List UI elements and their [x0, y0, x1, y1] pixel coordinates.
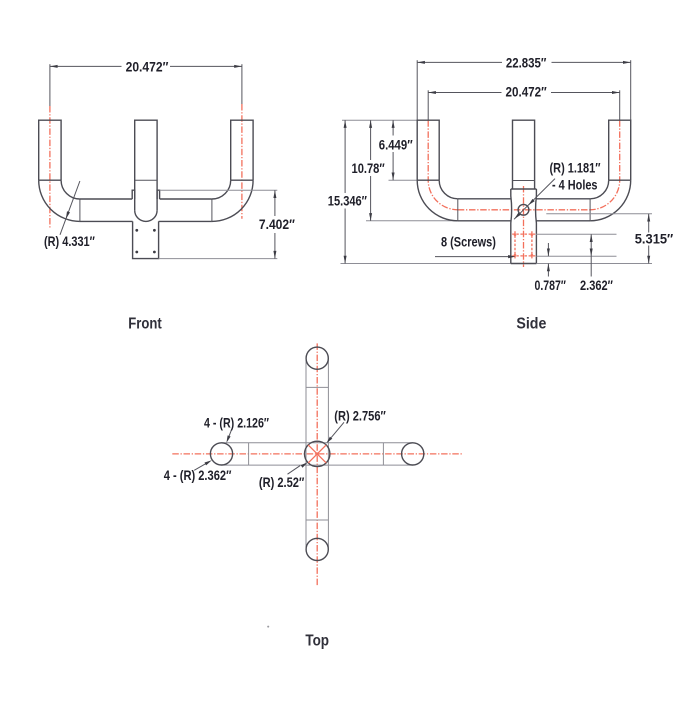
arm top edge left [458, 198, 511, 200]
dim 2.362 shaft [590, 234, 592, 276]
leader arrow R4.331 [64, 211, 70, 219]
leader 2.362 [194, 464, 205, 471]
joint line right arm [382, 443, 384, 465]
hidden tenon line left (red) [514, 231, 516, 258]
dim 22.835 dimension line [417, 61, 502, 63]
svg-text:Side: Side [516, 316, 546, 333]
bolt hole top-left [135, 229, 138, 232]
dim 2.362 arrow up at A [590, 234, 593, 242]
centerline left tube (red) [49, 106, 51, 229]
stray dot [267, 626, 269, 628]
centerline right tube (red) [241, 104, 243, 219]
center circle [305, 441, 330, 466]
center tube joint line [135, 179, 157, 181]
dim 22.835 extension left [416, 60, 418, 120]
dim 15.346 arrow up [344, 120, 347, 128]
bolt hole top-right [153, 229, 156, 232]
vertical centerline red [316, 343, 318, 585]
dim 20.472 arrow left [428, 91, 436, 94]
top reference extension line [342, 119, 417, 121]
mounting plate [133, 221, 159, 258]
svg-text:7.402″: 7.402″ [259, 216, 295, 232]
hidden tenon top (red) [512, 233, 536, 235]
dim 22.835 extension right [630, 60, 632, 120]
FRONT VIEW [39, 58, 295, 258]
right saddle tab [157, 190, 160, 199]
joint line top arm [306, 386, 328, 388]
svg-text:2.362″: 2.362″ [580, 277, 613, 293]
arm top edge left segment [80, 198, 132, 200]
svg-text:22.835″: 22.835″ [506, 54, 547, 70]
right bend-arm joint [589, 199, 591, 221]
horizontal bar top edge [222, 442, 413, 444]
svg-text:20.472″: 20.472″ [506, 84, 547, 100]
leader 2.52 [288, 466, 301, 475]
arm top edge right segment [160, 198, 212, 200]
leader arrow R1.181 [527, 199, 535, 207]
svg-text:15.346″: 15.346″ [328, 192, 367, 208]
vertical bar right edge [327, 358, 329, 549]
dim 22.835 arrow right [623, 61, 631, 64]
left end circle [210, 443, 232, 465]
dim 0.787 lower shaft with up arrow [547, 264, 549, 277]
svg-text:(R) 2.52″: (R) 2.52″ [259, 474, 305, 490]
dim 6.449 arrow down [392, 173, 395, 181]
center tube [513, 120, 535, 189]
bottom end circle [306, 538, 328, 560]
hidden tenon bottom (red) [512, 255, 536, 257]
leader arrow 2.362 [204, 459, 212, 466]
left bend outer arc [417, 180, 458, 221]
right bend inner arc [590, 180, 609, 199]
right tube [609, 120, 631, 180]
collar left edge [510, 189, 513, 264]
arm bottom edge right segment [159, 220, 212, 222]
left bend-arm joint line [79, 199, 81, 221]
top end circle [306, 347, 328, 369]
line A 2.362 top reference [536, 233, 617, 235]
dim 20.472 arrow right [612, 91, 620, 94]
collar centerline red [523, 186, 525, 267]
svg-text:5.315″: 5.315″ [635, 231, 674, 247]
leader arrow 2.126 [225, 435, 231, 443]
svg-text:8 (Screws): 8 (Screws) [441, 234, 496, 250]
leader arrow 2.52 [301, 461, 309, 468]
svg-text:20.472″: 20.472″ [126, 58, 169, 74]
dim 15.346 line [344, 120, 346, 193]
svg-text:(R) 4.331″: (R) 4.331″ [44, 233, 95, 249]
right bend-arm joint line [211, 199, 213, 221]
red X diagonal 1 [308, 445, 326, 463]
left tube bend joint [417, 179, 439, 181]
collar bottom line [511, 263, 537, 265]
left tube bend start joint [39, 179, 61, 181]
collar top line [511, 188, 537, 190]
collar bottom extension line left [341, 263, 511, 265]
right bend outer arc [590, 180, 631, 221]
right bend inner arc [212, 180, 231, 199]
dim 20.472 extension left [427, 90, 429, 120]
leader arrow 8 Screws [508, 255, 515, 258]
bend start extension line [389, 179, 418, 181]
dim 20.472 extension right [619, 90, 621, 120]
leader R1.181 [514, 179, 555, 220]
center hole [518, 204, 529, 215]
svg-text:6.449″: 6.449″ [379, 136, 413, 152]
left tube [417, 120, 439, 180]
center tube U bottom [135, 210, 157, 221]
svg-text:(R) 2.756″: (R) 2.756″ [334, 407, 386, 423]
dim 10.78 arrow down [369, 213, 372, 221]
tenon arrow top-right [531, 231, 534, 236]
svg-text:10.78″: 10.78″ [352, 160, 385, 176]
center tube joint line [513, 180, 535, 182]
dim 20.472 arrow right [234, 65, 242, 68]
arm top edge right [536, 198, 590, 200]
dim 5.315 arrow up [647, 214, 650, 222]
svg-text:- 4 Holes: - 4 Holes [552, 177, 598, 193]
dim 7.402 arrow up [273, 190, 276, 198]
leader arrow 2.756 [325, 437, 332, 445]
horizontal bar bottom edge [222, 464, 413, 466]
dim 22.835 arrow left [417, 61, 425, 64]
right tube centerline red [590, 120, 620, 210]
SIDE VIEW [328, 54, 674, 293]
joint line left arm [248, 443, 250, 465]
dim 7.402 arrow down [273, 251, 276, 259]
tenon arrow top-left [514, 231, 517, 236]
leader 2.126 [228, 430, 232, 439]
arm bottom edge left segment [80, 220, 133, 222]
dim 5.315 line [648, 214, 650, 233]
red X diagonal 2 [308, 445, 326, 463]
view labels [128, 316, 546, 650]
arm bottom extension line [366, 220, 458, 222]
svg-text:Top: Top [305, 633, 329, 650]
right bend outer arc [212, 180, 253, 221]
svg-text:(R) 1.181″: (R) 1.181″ [550, 159, 601, 175]
dim 20.472 arrow left [50, 65, 58, 68]
arm bottom edge right [536, 220, 590, 222]
svg-text:4 - (R) 2.362″: 4 - (R) 2.362″ [164, 467, 232, 483]
left bend inner arc [439, 180, 458, 199]
dim 10.78 line [370, 120, 372, 160]
vertical bar left edge [305, 358, 307, 549]
dim 20.472 extension line left [49, 64, 51, 106]
line B 0.787 top reference [536, 255, 616, 257]
right tube bend start joint [231, 179, 253, 181]
tenon arrow bottom-right [531, 254, 534, 259]
svg-text:4 - (R) 2.126″: 4 - (R) 2.126″ [204, 414, 269, 430]
horizontal centerline red [172, 453, 462, 455]
left tube [39, 120, 61, 180]
dim 2.362 arrow down at B [590, 249, 593, 257]
arm centerline red [458, 209, 590, 211]
leader 8 Screws [435, 256, 511, 258]
dim 15.346 arrow down [344, 256, 347, 264]
svg-text:Front: Front [128, 316, 162, 333]
dim 7.402 bottom extension line [159, 258, 278, 260]
left saddle tab [132, 190, 135, 199]
dim 5.315 extension top [546, 213, 652, 215]
bolt hole bottom-right [153, 251, 156, 254]
dim 6.449 line [392, 120, 394, 135]
TOP VIEW [164, 343, 462, 627]
arm bottom edge left [458, 220, 511, 222]
hidden tenon line right (red) [531, 231, 533, 258]
left tube centerline red [428, 120, 458, 210]
leader line R4.331 [60, 181, 80, 235]
left bend-arm joint [457, 199, 459, 221]
dim 20.472 dimension line [50, 65, 122, 67]
dim 20.472 extension line right [241, 64, 243, 104]
dim 7.402 dimension line [274, 190, 276, 216]
dim 6.449 arrow up [392, 120, 395, 128]
svg-text:0.787″: 0.787″ [535, 277, 567, 293]
leader 2.756 [331, 422, 344, 437]
left bend inner arc [61, 180, 80, 199]
right tube bend joint [609, 179, 631, 181]
collar right edge [535, 189, 538, 264]
right end circle [402, 443, 424, 465]
collar bottom extension right [536, 263, 652, 265]
dim 5.315 arrow down [647, 256, 650, 264]
joint line bottom arm [306, 519, 328, 521]
right tube [231, 120, 253, 180]
dim 10.78 arrow up [369, 120, 372, 128]
dim 20.472 dimension line [428, 92, 501, 94]
left bend outer arc [39, 180, 80, 221]
tenon arrow bottom-left [514, 254, 517, 259]
bolt hole bottom-left [135, 251, 138, 254]
dim 7.402 top extension line [160, 189, 278, 191]
dim 0.787 upper shaft with down arrow [547, 243, 549, 256]
center tube [135, 120, 157, 210]
